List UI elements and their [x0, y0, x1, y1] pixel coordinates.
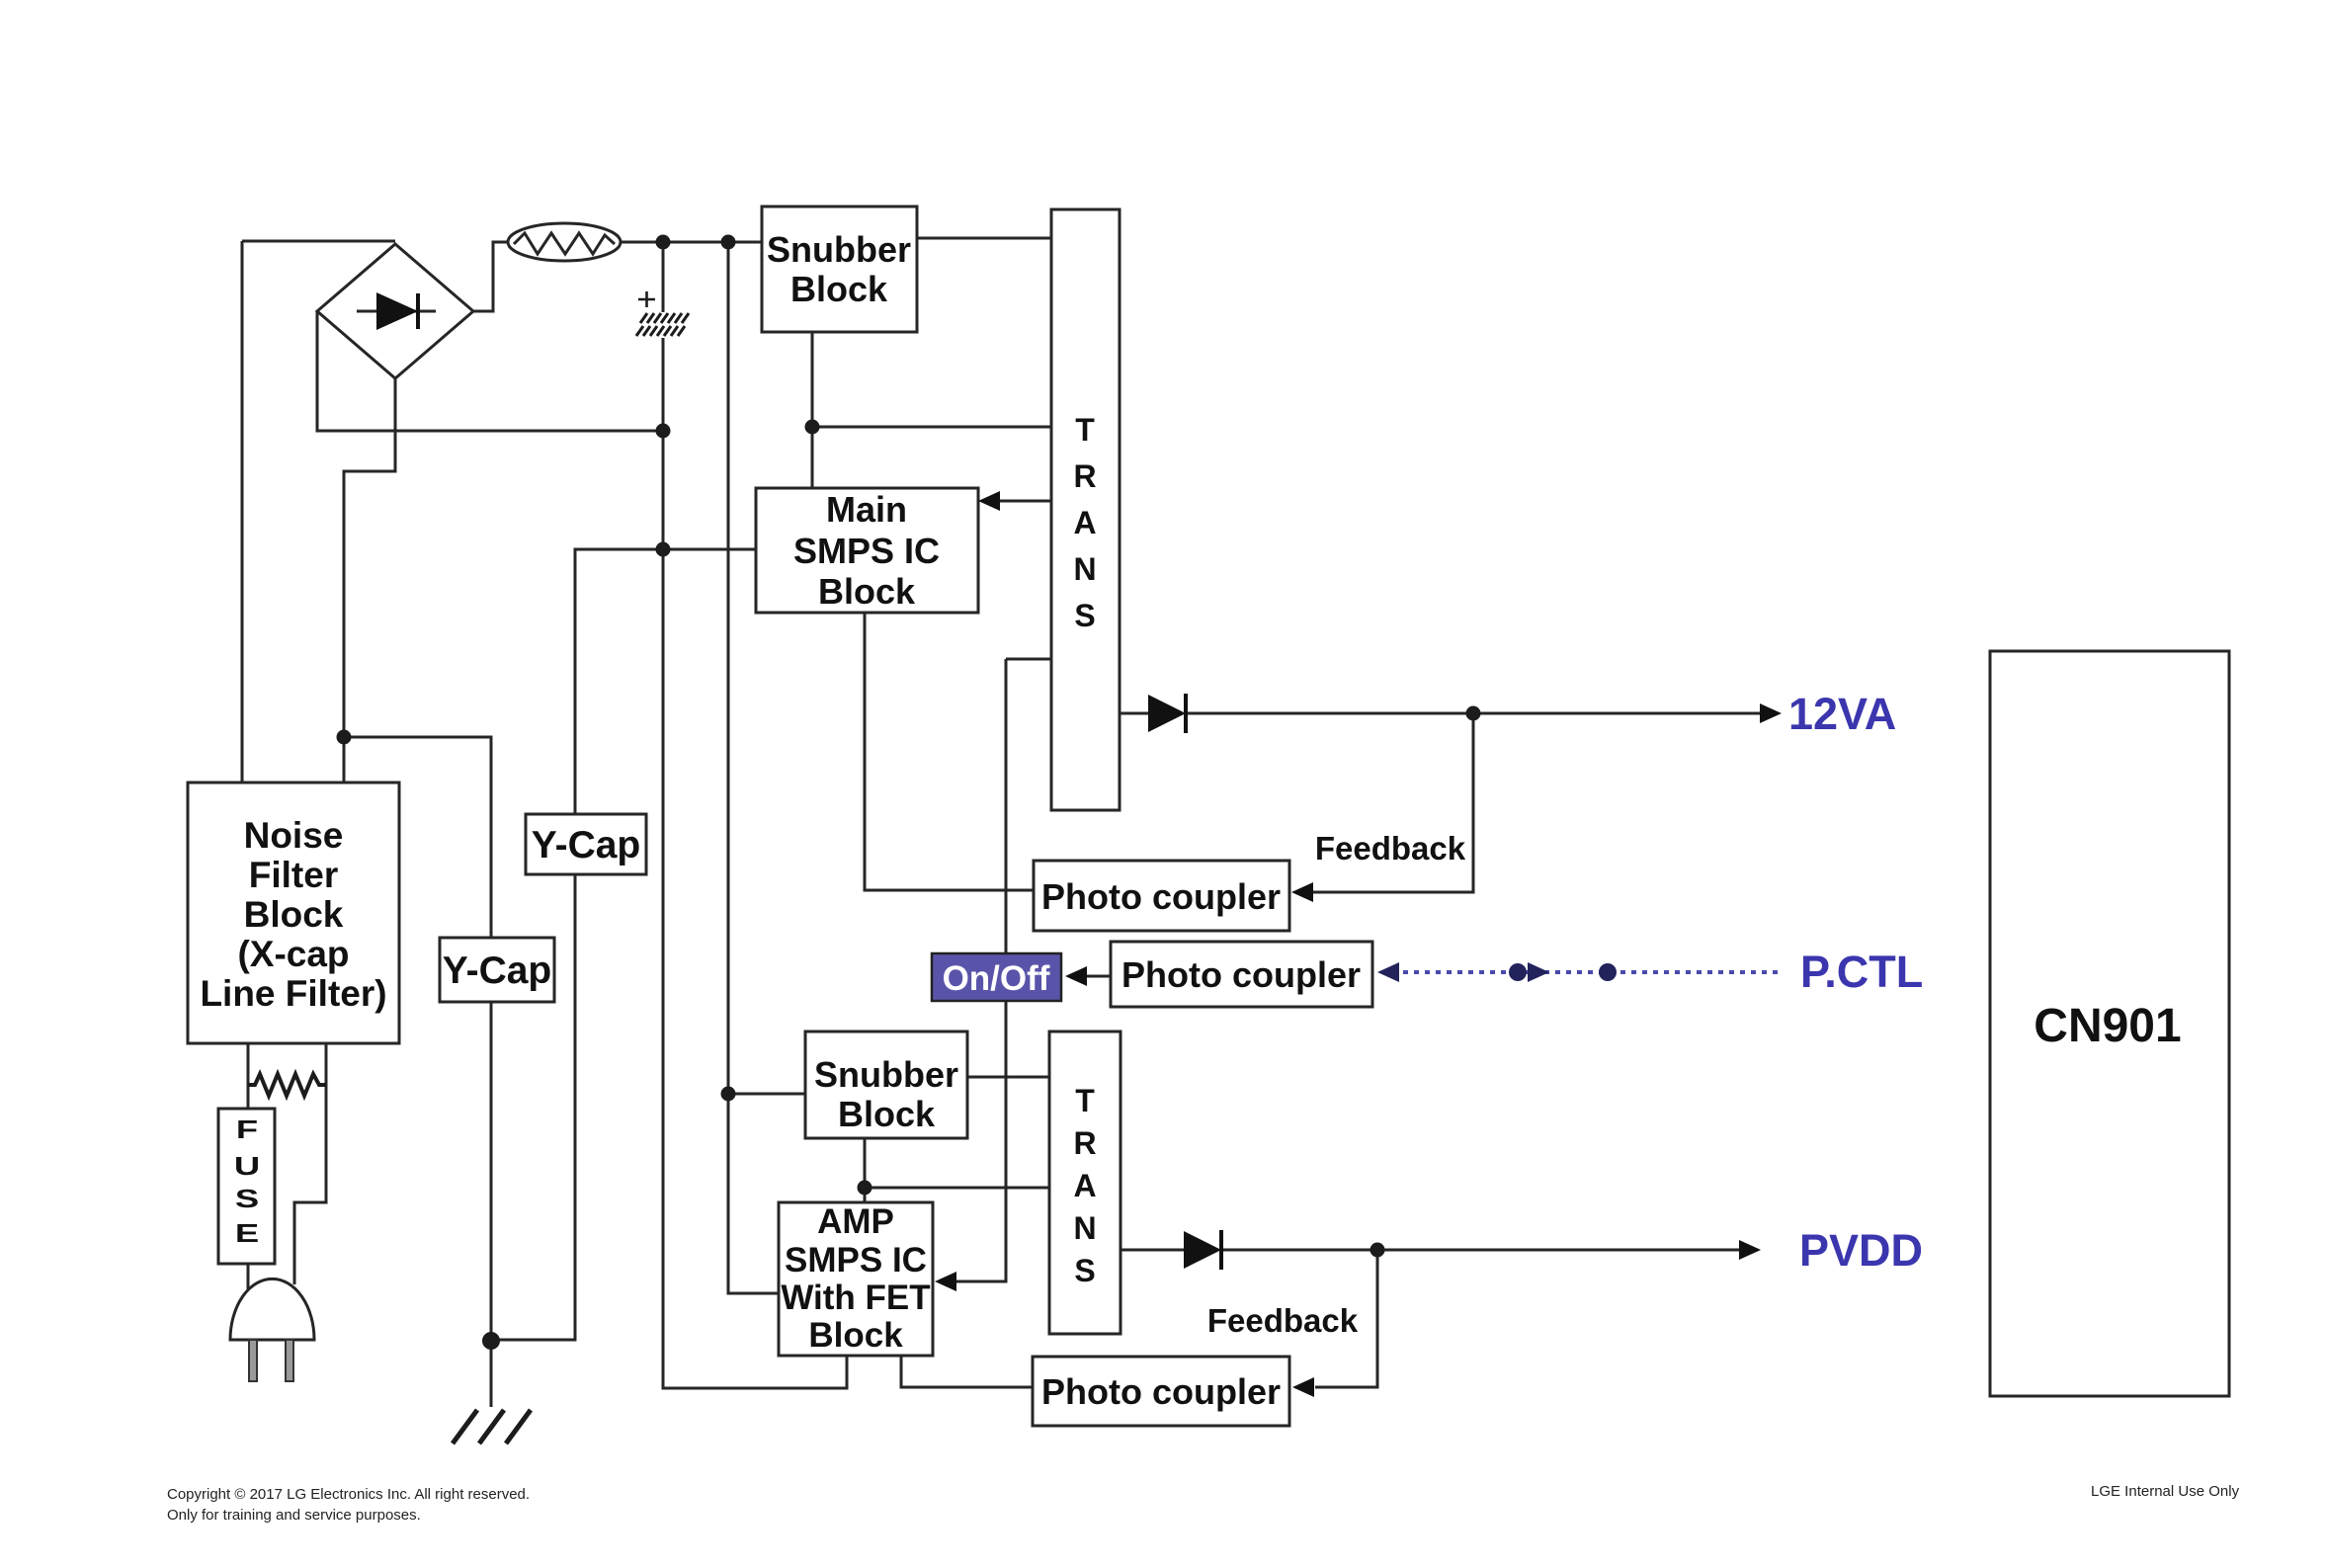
- svg-text:SMPS IC: SMPS IC: [785, 1241, 927, 1279]
- svg-text:U: U: [234, 1151, 260, 1181]
- svg-text:AMP: AMP: [817, 1202, 894, 1241]
- svg-text:Y-Cap: Y-Cap: [443, 949, 552, 992]
- svg-text:Y-Cap: Y-Cap: [532, 824, 641, 867]
- svg-text:T: T: [1075, 1083, 1095, 1118]
- svg-text:Block: Block: [818, 571, 916, 612]
- svg-text:Feedback: Feedback: [1315, 830, 1466, 867]
- svg-text:Line Filter): Line Filter): [200, 973, 386, 1014]
- svg-text:Block: Block: [790, 269, 888, 309]
- svg-text:R: R: [1073, 458, 1096, 494]
- svg-text:PVDD: PVDD: [1799, 1225, 1923, 1276]
- svg-text:Snubber: Snubber: [767, 229, 911, 270]
- svg-text:Block: Block: [808, 1316, 903, 1355]
- svg-text:With FET: With FET: [781, 1279, 930, 1317]
- svg-text:Photo coupler: Photo coupler: [1041, 1371, 1281, 1412]
- svg-text:Photo coupler: Photo coupler: [1041, 876, 1281, 917]
- svg-text:F: F: [236, 1114, 258, 1144]
- svg-text:Only for training and service: Only for training and service purposes.: [167, 1507, 421, 1524]
- svg-text:On/Off: On/Off: [943, 959, 1050, 998]
- svg-text:P.CTL: P.CTL: [1800, 947, 1923, 997]
- svg-text:S: S: [235, 1184, 259, 1213]
- svg-text:Snubber: Snubber: [814, 1054, 958, 1095]
- svg-text:SMPS IC: SMPS IC: [793, 531, 940, 571]
- svg-text:LGE Internal Use Only: LGE Internal Use Only: [2091, 1483, 2240, 1500]
- svg-text:A: A: [1073, 1168, 1096, 1203]
- svg-text:CN901: CN901: [2034, 1000, 2181, 1052]
- svg-text:Copyright © 2017 LG Electronic: Copyright © 2017 LG Electronics Inc. All…: [167, 1486, 530, 1503]
- svg-text:S: S: [1074, 598, 1095, 633]
- svg-text:Block: Block: [244, 894, 344, 935]
- svg-text:Feedback: Feedback: [1207, 1302, 1359, 1339]
- svg-text:A: A: [1073, 505, 1096, 540]
- svg-text:12VA: 12VA: [1788, 689, 1896, 739]
- svg-text:Block: Block: [838, 1094, 936, 1134]
- svg-text:N: N: [1073, 551, 1096, 587]
- svg-text:N: N: [1073, 1210, 1096, 1246]
- svg-text:E: E: [235, 1218, 259, 1248]
- svg-text:R: R: [1073, 1125, 1096, 1161]
- svg-text:Photo coupler: Photo coupler: [1121, 954, 1361, 995]
- svg-text:T: T: [1075, 412, 1095, 448]
- svg-text:Noise: Noise: [244, 815, 344, 856]
- svg-text:Filter: Filter: [249, 855, 338, 895]
- svg-text:(X-cap: (X-cap: [237, 934, 349, 974]
- svg-text:S: S: [1074, 1253, 1095, 1288]
- svg-text:Main: Main: [826, 489, 907, 530]
